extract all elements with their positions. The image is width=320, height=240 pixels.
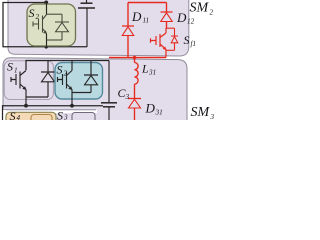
wire: top rail of lower SM xyxy=(26,61,109,71)
svg-text:D: D xyxy=(176,10,187,25)
svg-text:3: 3 xyxy=(125,93,130,101)
svg-text:4: 4 xyxy=(17,114,21,120)
node: S2 emitter junction dot xyxy=(70,104,74,108)
wire: bottom rail of upper SM xyxy=(3,46,87,48)
label C3 xyxy=(118,86,130,101)
wire: lower S2 internal bottom branch xyxy=(72,92,91,94)
submodule region SM3 (lower lavender box) xyxy=(3,58,187,130)
label S4 xyxy=(10,109,21,123)
wire: top-left rail of upper SM xyxy=(3,3,48,48)
IGBT module box S2 (lower, teal) xyxy=(55,63,103,100)
label SM2 (top right) xyxy=(190,1,214,17)
svg-text:S: S xyxy=(184,33,190,47)
svg-text:1: 1 xyxy=(14,67,18,75)
label D12 xyxy=(176,10,195,26)
node: collector junction dot on top rail xyxy=(44,1,48,5)
svg-text:3: 3 xyxy=(210,113,215,120)
diode: antiparallel diode of upper S2 xyxy=(55,14,69,40)
capacitor (upper SM, unlabeled) xyxy=(78,0,95,47)
diode D31 xyxy=(128,99,141,121)
inductor L31 xyxy=(135,58,139,99)
wire: bottom rail of lower SM xyxy=(3,106,104,120)
IGBT module box S1 (subtle lavender outline) xyxy=(4,61,53,100)
label S2 (teal box) xyxy=(57,63,68,78)
module inner box (inside orange, cut off) xyxy=(31,115,52,125)
wire: S1 internal bottom branch xyxy=(26,96,48,98)
svg-text:31: 31 xyxy=(155,109,163,117)
diode: antiparallel diode of Sf1 xyxy=(171,28,178,50)
svg-text:SM: SM xyxy=(191,105,211,120)
wire: Sf1 antiparallel diode bottom branch xyxy=(166,49,175,51)
svg-text:2: 2 xyxy=(210,9,214,17)
label S2 (upper green box) xyxy=(29,6,40,21)
diode: antiparallel diode of lower S2 xyxy=(84,61,98,93)
label L31 xyxy=(141,62,156,77)
wire: Sf1 antiparallel diode top branch xyxy=(166,27,175,29)
diode D11 xyxy=(122,3,134,58)
svg-text:D: D xyxy=(131,9,142,24)
diode D12 xyxy=(161,3,173,29)
transistor S2 (lower IGBT) xyxy=(58,61,73,106)
svg-text:f1: f1 xyxy=(191,40,196,48)
wire: upper IGBT internal top branch xyxy=(47,13,63,15)
svg-text:S: S xyxy=(29,6,35,20)
svg-text:S: S xyxy=(57,63,63,77)
wire: red top rail (D11 to D12) xyxy=(128,2,167,4)
label D11 xyxy=(131,9,149,25)
svg-text:L: L xyxy=(141,62,149,76)
svg-text:D: D xyxy=(145,101,156,116)
svg-text:S: S xyxy=(10,109,16,120)
svg-text:12: 12 xyxy=(187,18,195,26)
label D31 xyxy=(145,101,163,117)
label S1 xyxy=(7,60,18,75)
transistor S1 (IGBT, no colored box) xyxy=(11,71,26,106)
transistor Sf1 (red IGBT) xyxy=(151,28,167,58)
wire: red middle rail xyxy=(109,57,166,59)
submodule region SM2 (upper lavender box) xyxy=(8,0,189,56)
module inner box (right of S3 label, cut off) xyxy=(72,113,95,125)
svg-text:SM: SM xyxy=(190,1,210,16)
IGBT module box S4 (orange, bottom row, cut off) xyxy=(6,112,56,126)
transistor S2 (upper IGBT) xyxy=(33,3,47,48)
svg-text:S: S xyxy=(7,60,13,74)
capacitor C3 xyxy=(101,61,117,121)
white gap strip between SM3 box bottom border and next row xyxy=(0,110,97,120)
IGBT module box S2 (upper, green) xyxy=(27,4,76,46)
svg-text:31: 31 xyxy=(148,69,156,77)
wire: upper IGBT internal bottom branch xyxy=(47,39,63,41)
diode: antiparallel diode of S1 xyxy=(41,61,55,98)
label SM3 (bottom right) xyxy=(191,105,215,121)
node: emitter junction dot on bottom rail xyxy=(44,45,48,49)
node: junction dot on red middle rail xyxy=(133,56,137,60)
svg-text:3: 3 xyxy=(63,114,68,121)
label S3 xyxy=(57,109,68,123)
label Sf1 xyxy=(184,33,196,48)
svg-text:11: 11 xyxy=(143,17,150,25)
node: S1 emitter junction dot xyxy=(24,104,28,108)
svg-text:S: S xyxy=(57,109,63,121)
